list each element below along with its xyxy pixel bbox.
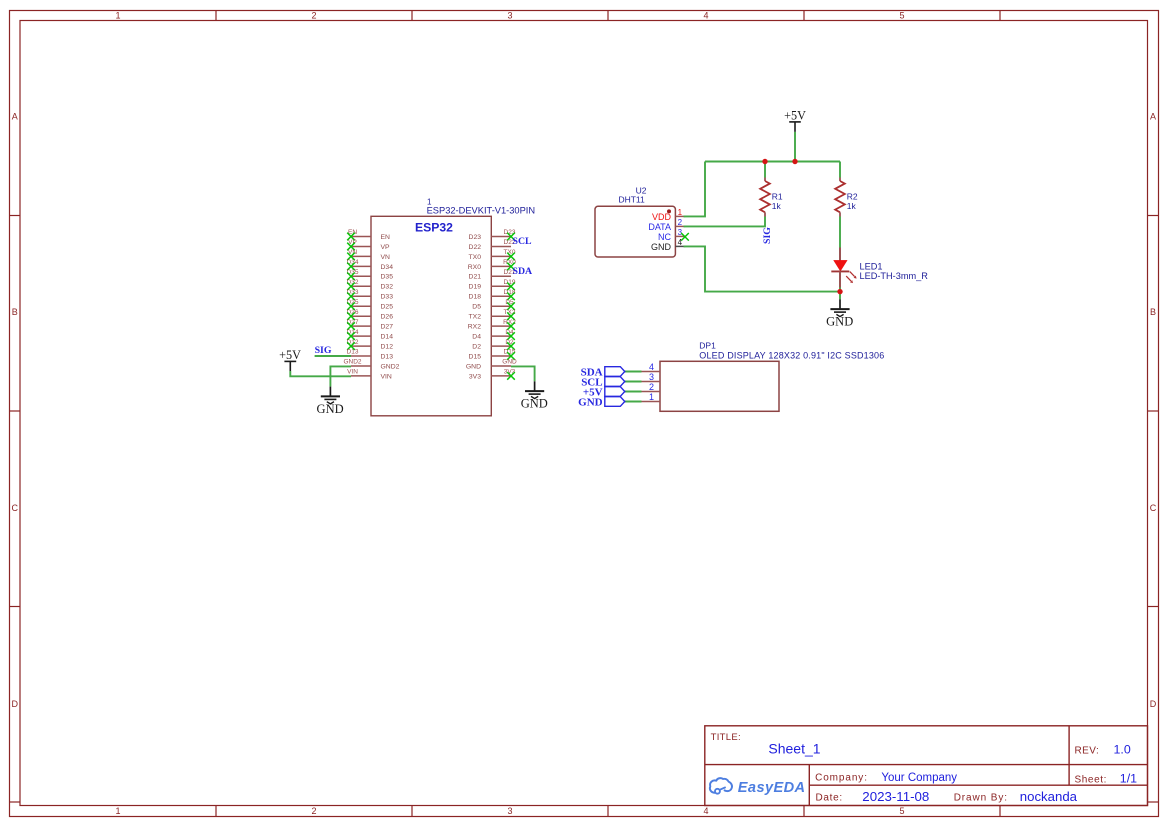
wire R2 bottom to LED anode	[839, 217, 841, 248]
svg-text:1k: 1k	[772, 201, 782, 211]
ESP32 right pin GND	[466, 359, 517, 371]
wire junction to ground	[839, 292, 841, 300]
svg-text:4: 4	[703, 806, 708, 816]
svg-text:SCL: SCL	[513, 236, 533, 247]
ESP32 left pin D13	[347, 349, 394, 361]
ESP32 left pin D35	[347, 269, 394, 281]
svg-text:GND2: GND2	[343, 359, 361, 366]
junction dot LED/GND	[837, 289, 842, 294]
ESP32 right pin D2	[472, 339, 515, 351]
svg-text:LED1: LED1	[860, 261, 883, 271]
svg-text:OLED DISPLAY 128X32 0.91" I2C: OLED DISPLAY 128X32 0.91" I2C SSD1306	[699, 350, 884, 360]
svg-text:D4: D4	[472, 334, 481, 341]
svg-text:VIN: VIN	[347, 369, 358, 376]
ESP32 right pin D23	[469, 229, 516, 241]
svg-text:D13: D13	[347, 349, 359, 356]
svg-text:1: 1	[678, 208, 683, 217]
power symbol +5V (left)	[279, 348, 301, 371]
svg-text:SIG: SIG	[762, 227, 773, 244]
ESP32 left pin VN	[347, 249, 390, 261]
svg-text:TX0: TX0	[469, 254, 482, 261]
ESP32 left pin D33	[347, 289, 394, 301]
svg-text:EasyEDA: EasyEDA	[738, 780, 806, 796]
svg-text:EN: EN	[381, 234, 391, 241]
svg-text:nockanda: nockanda	[1020, 789, 1078, 804]
ESP32 left pin D25	[347, 299, 394, 311]
sensor U2 DHT11 body	[595, 206, 675, 257]
svg-text:D13: D13	[381, 353, 394, 360]
wire +5V down to rail	[794, 132, 796, 162]
svg-text:REV:: REV:	[1075, 745, 1100, 756]
svg-text:TX2: TX2	[469, 314, 482, 321]
svg-text:D: D	[11, 699, 18, 709]
EasyEDA logo	[710, 778, 806, 796]
svg-text:D33: D33	[381, 294, 394, 301]
svg-text:Company:: Company:	[815, 772, 868, 783]
svg-text:GND2: GND2	[381, 363, 400, 370]
wire rail down to DHT11 VDD pin 1	[684, 162, 706, 217]
wire pin GND (ESP32 right) to ground	[511, 366, 535, 381]
resistor R2 1k	[835, 162, 858, 217]
ESP32 left pin D14	[347, 329, 394, 341]
net port flag SCL	[581, 376, 625, 388]
wire SCL flag to OLED pin 3	[624, 381, 641, 383]
svg-text:D25: D25	[381, 304, 394, 311]
ground symbol GND (LED)	[826, 299, 853, 328]
wire SIG stub to pin D13	[315, 355, 351, 357]
svg-text:LED-TH-3mm_R: LED-TH-3mm_R	[860, 271, 929, 281]
svg-text:2: 2	[678, 218, 683, 227]
svg-text:4: 4	[649, 362, 654, 372]
ESP32 left pin VIN	[347, 369, 392, 381]
svg-text:B: B	[12, 307, 18, 317]
wire +5V flag to OLED pin 2	[624, 391, 641, 393]
svg-text:2: 2	[311, 11, 316, 21]
ESP32 right pin D19	[469, 279, 516, 291]
svg-text:B: B	[1150, 307, 1156, 317]
svg-text:Your Company: Your Company	[881, 772, 957, 784]
svg-text:D34: D34	[381, 264, 394, 271]
svg-text:D35: D35	[381, 274, 394, 281]
ESP32 left pin D34	[347, 259, 394, 271]
svg-text:D2: D2	[472, 344, 481, 351]
svg-text:GND: GND	[317, 402, 344, 416]
ESP32 left pin D12	[347, 339, 394, 351]
DHT11 pin 4 GND	[651, 238, 685, 252]
svg-text:3: 3	[507, 806, 512, 816]
ESP32 right pin TX2	[469, 309, 516, 321]
svg-text:5: 5	[899, 11, 904, 21]
svg-text:2023-11-08: 2023-11-08	[862, 789, 929, 804]
svg-text:Sheet_1: Sheet_1	[768, 741, 820, 757]
svg-text:VN: VN	[381, 254, 391, 261]
svg-text:2: 2	[649, 382, 654, 392]
svg-text:DATA: DATA	[648, 222, 671, 232]
svg-text:RX0: RX0	[468, 264, 481, 271]
OLED pin 1	[641, 392, 661, 402]
svg-text:D32: D32	[381, 284, 394, 291]
ground symbol GND (ESP32 right)	[521, 381, 548, 410]
svg-text:ESP32-DEVKIT-V1-30PIN: ESP32-DEVKIT-V1-30PIN	[427, 206, 536, 216]
DHT11 pin 1 VDD	[652, 208, 685, 222]
wire GND flag to OLED pin 1	[624, 401, 641, 403]
ESP32 right pin RX2	[468, 319, 516, 331]
svg-text:D27: D27	[381, 324, 394, 331]
title block	[705, 726, 1148, 806]
OLED pin 2	[641, 382, 661, 392]
ESP32 left pin VP	[347, 239, 390, 251]
ESP32 left pin D26	[347, 309, 394, 321]
svg-text:1: 1	[649, 392, 654, 402]
svg-text:D19: D19	[469, 284, 482, 291]
svg-text:3V3: 3V3	[469, 373, 481, 380]
ESP32 left pin D27	[347, 319, 394, 331]
ESP32 right pin TX0	[469, 249, 516, 261]
svg-text:3: 3	[649, 372, 654, 382]
svg-text:C: C	[1150, 503, 1157, 513]
svg-text:3: 3	[507, 11, 512, 21]
ESP32 right pin 3V3	[469, 369, 516, 381]
svg-text:1: 1	[115, 806, 120, 816]
svg-text:D23: D23	[469, 234, 482, 241]
ESP32 right pin D18	[469, 289, 516, 301]
svg-text:4: 4	[703, 11, 708, 21]
ground symbol GND (ESP32 left)	[317, 387, 344, 416]
svg-text:D12: D12	[381, 344, 394, 351]
svg-text:D14: D14	[381, 334, 394, 341]
svg-text:D: D	[1150, 699, 1157, 709]
OLED pin 4	[641, 362, 661, 372]
svg-text:Date:: Date:	[816, 792, 843, 803]
junction dot at R1/rail	[762, 159, 767, 164]
wire SDA flag to OLED pin 4	[624, 371, 641, 373]
ESP32 left pin D32	[347, 279, 394, 291]
ESP32 right pin D22	[469, 239, 516, 251]
svg-text:RX2: RX2	[468, 324, 481, 331]
wire LED cathode to junction	[839, 288, 841, 292]
svg-text:ESP32: ESP32	[415, 221, 453, 235]
svg-text:GND: GND	[502, 359, 517, 366]
svg-text:GND: GND	[826, 315, 853, 329]
svg-text:GND: GND	[466, 363, 481, 370]
svg-text:1: 1	[115, 11, 120, 21]
svg-text:GND: GND	[521, 397, 548, 411]
svg-text:NC: NC	[658, 232, 671, 242]
svg-text:5: 5	[899, 806, 904, 816]
ESP32 right pin RX0	[468, 259, 516, 271]
svg-text:SIG: SIG	[315, 345, 332, 356]
svg-text:A: A	[12, 111, 18, 121]
svg-text:1/1: 1/1	[1120, 772, 1137, 786]
LED LED1 symbol	[831, 248, 856, 288]
svg-text:SDA: SDA	[513, 266, 533, 277]
wire DHT11 GND pin 4 to LED junction	[684, 246, 841, 291]
svg-text:DHT11: DHT11	[618, 195, 645, 205]
svg-text:1k: 1k	[847, 201, 857, 211]
svg-text:Sheet:: Sheet:	[1075, 775, 1108, 786]
svg-text:D21: D21	[469, 274, 482, 281]
svg-text:+5V: +5V	[784, 108, 806, 122]
svg-text:VIN: VIN	[381, 373, 392, 380]
IC U1 ESP32-DEVKIT-V1-30PIN body	[371, 216, 491, 415]
net port flag +5V	[583, 386, 625, 398]
ESP32 right pin D15	[469, 349, 516, 361]
svg-text:D15: D15	[469, 353, 482, 360]
DHT11 pin 2 DATA	[648, 218, 685, 232]
net port flag SDA	[581, 366, 625, 378]
svg-text:C: C	[11, 503, 18, 513]
ESP32 left pin GND2	[343, 359, 399, 371]
svg-text:A: A	[1150, 111, 1156, 121]
net port flag GND	[578, 396, 625, 408]
svg-text:+5V: +5V	[279, 348, 301, 362]
wire R1 bottom to DHT11 DATA pin 2	[684, 217, 766, 227]
wire +5V rail	[705, 161, 840, 163]
ESP32 left pin EN	[347, 229, 390, 241]
OLED pin 3	[641, 372, 661, 382]
svg-text:TITLE:: TITLE:	[711, 732, 741, 743]
ESP32 right pin D21	[469, 269, 516, 281]
svg-text:VP: VP	[381, 244, 391, 251]
ESP32 right pin D5	[472, 299, 515, 311]
svg-text:DP1: DP1	[699, 341, 716, 351]
svg-text:Drawn By:: Drawn By:	[954, 793, 1008, 804]
DHT11 pin 3 NC	[658, 228, 689, 242]
svg-text:D22: D22	[469, 244, 482, 251]
svg-text:VDD: VDD	[652, 212, 672, 222]
svg-text:4: 4	[678, 238, 683, 247]
svg-text:2: 2	[311, 806, 316, 816]
svg-text:1.0: 1.0	[1114, 742, 1131, 756]
wire +5V to pin VIN	[290, 371, 351, 376]
svg-text:GND: GND	[651, 242, 672, 252]
svg-text:D18: D18	[469, 294, 482, 301]
resistor R1 1k	[760, 162, 783, 217]
svg-text:D5: D5	[472, 304, 481, 311]
display DP1 body	[660, 361, 779, 411]
power symbol +5V (top)	[784, 108, 806, 131]
junction dot at +5V/rail	[792, 159, 797, 164]
wire pin GND2 to ground	[330, 366, 351, 386]
svg-text:D26: D26	[381, 314, 394, 321]
svg-text:GND: GND	[578, 396, 603, 408]
ESP32 right pin D4	[472, 329, 515, 341]
